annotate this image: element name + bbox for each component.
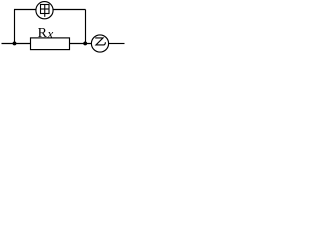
wire right vertical branch: [85, 10, 87, 44]
glyph 甲 inside top meter: [41, 5, 50, 17]
svg-text:x: x: [47, 26, 54, 41]
wire top-right segment: [53, 9, 85, 11]
wire top-left segment: [14, 9, 36, 11]
svg-text:R: R: [38, 26, 48, 41]
wire bottom-right segment: [109, 43, 125, 45]
resistor Rx box: [31, 38, 70, 50]
ammeter 甲 (meter Jia) circle: [36, 2, 53, 19]
node junction dot left: [13, 41, 17, 45]
wire bottom-left segment: [2, 43, 31, 45]
ammeter 乙 (meter Yi) circle: [91, 35, 108, 52]
node junction dot right: [83, 41, 87, 45]
wire left vertical branch: [14, 10, 16, 44]
glyph 乙 inside right meter: [95, 38, 105, 45]
wire bottom-middle segment: [70, 43, 92, 45]
